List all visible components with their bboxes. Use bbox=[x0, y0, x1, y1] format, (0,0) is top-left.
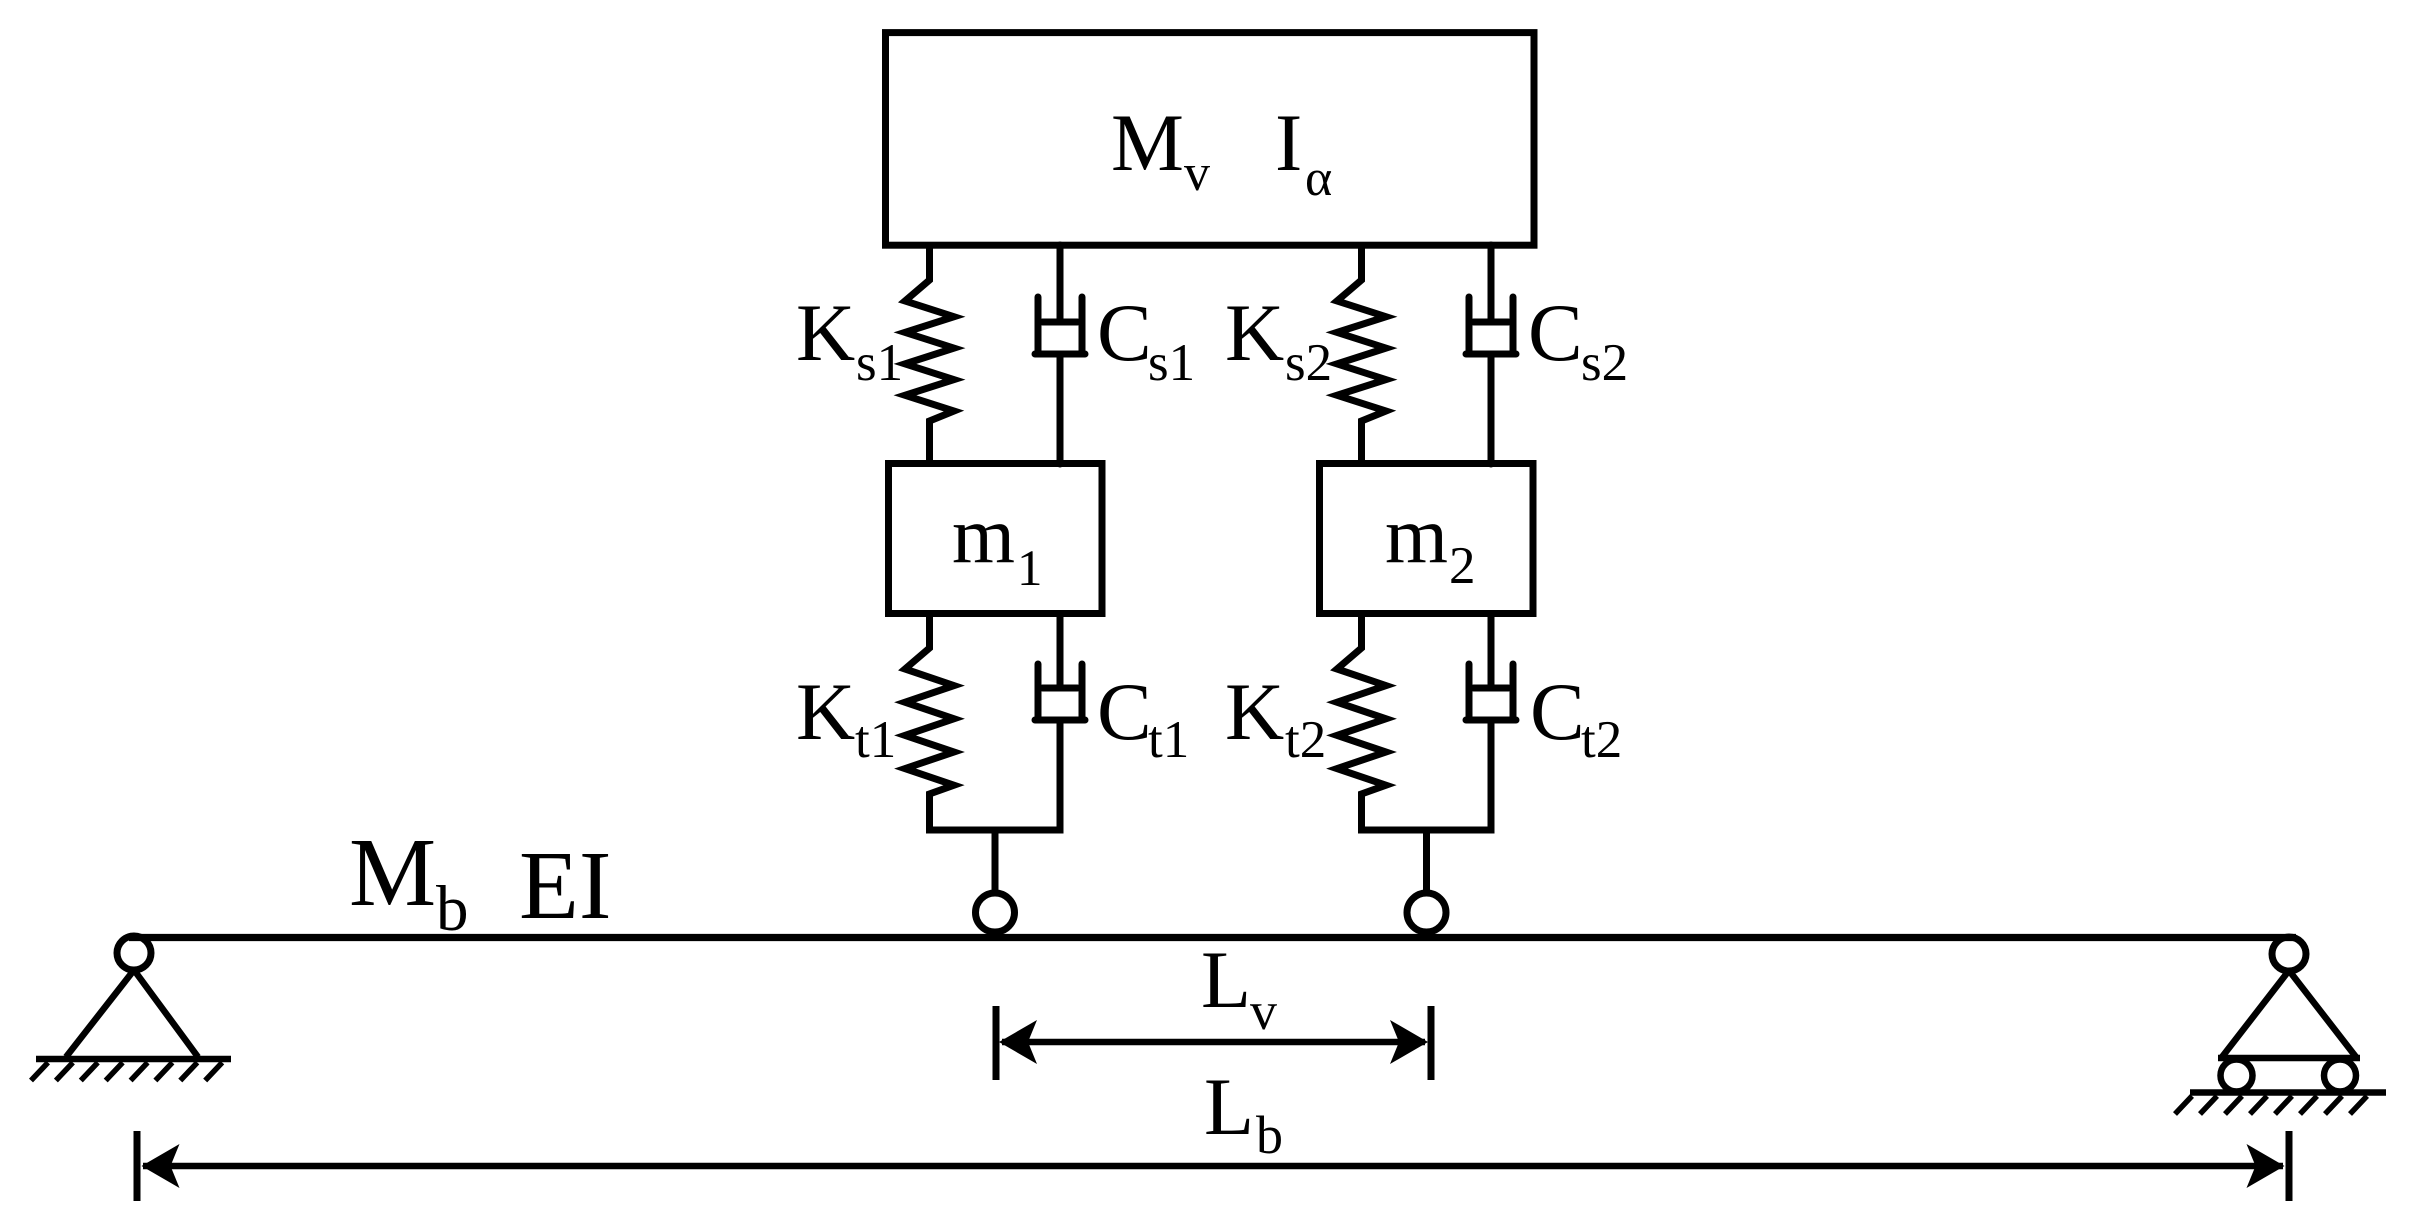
damper Cs2 bbox=[1466, 245, 1516, 464]
right support base line bbox=[2218, 1055, 2360, 1062]
svg-text:b: b bbox=[1256, 1105, 1283, 1165]
svg-text:K: K bbox=[796, 666, 855, 757]
roller circle right bbox=[2324, 1060, 2356, 1092]
svg-text:s1: s1 bbox=[1148, 334, 1195, 392]
wire wheel stem left bbox=[992, 830, 999, 896]
svg-text:b: b bbox=[436, 873, 469, 945]
svg-text:t1: t1 bbox=[855, 711, 896, 769]
svg-text:m: m bbox=[1385, 490, 1448, 580]
svg-text:I: I bbox=[1275, 97, 1302, 188]
spring Ks1 bbox=[905, 245, 954, 464]
svg-text:s2: s2 bbox=[1581, 334, 1628, 392]
svg-text:K: K bbox=[1225, 666, 1284, 757]
svg-text:C: C bbox=[1097, 287, 1152, 378]
spring Ks2 bbox=[1337, 245, 1386, 464]
wire wheel stem right bbox=[1423, 830, 1430, 896]
dimension Lv left arrowhead bbox=[999, 1020, 1037, 1064]
dimension Lb left arrowhead bbox=[142, 1144, 180, 1188]
wire axle bar right bbox=[1358, 827, 1495, 834]
wheel 2 bbox=[1407, 893, 1446, 932]
svg-text:EI: EI bbox=[519, 832, 612, 940]
dimension Lv line bbox=[1002, 1039, 1425, 1046]
svg-text:L: L bbox=[1204, 1061, 1254, 1152]
dimension Lv ticks bbox=[996, 1006, 1431, 1080]
mass m2 bbox=[1320, 464, 1534, 614]
svg-text:t2: t2 bbox=[1581, 711, 1622, 769]
svg-text:t1: t1 bbox=[1148, 711, 1189, 769]
damper Ct2 bbox=[1466, 614, 1516, 831]
roller circle left bbox=[2221, 1060, 2253, 1092]
left support ground line bbox=[36, 1056, 231, 1063]
dimension Lb line bbox=[143, 1163, 2283, 1170]
right support ground line bbox=[2190, 1089, 2386, 1096]
vehicle body Mv bbox=[886, 33, 1535, 246]
left pin support triangle bbox=[66, 970, 198, 1057]
dimension Lb right arrowhead bbox=[2247, 1144, 2285, 1188]
svg-text:s2: s2 bbox=[1285, 334, 1332, 392]
svg-text:t2: t2 bbox=[1285, 711, 1326, 769]
svg-text:v: v bbox=[1184, 145, 1210, 202]
svg-text:C: C bbox=[1528, 287, 1583, 378]
svg-text:L: L bbox=[1201, 934, 1251, 1025]
wheel 1 bbox=[976, 893, 1015, 932]
spring Kt1 bbox=[905, 614, 954, 831]
right roller support triangle bbox=[2222, 971, 2356, 1058]
svg-text:s1: s1 bbox=[856, 334, 903, 392]
beam Mb EI bbox=[129, 934, 2296, 941]
right support hatching bbox=[2175, 1096, 2367, 1114]
svg-text:α: α bbox=[1305, 150, 1332, 207]
svg-text:C: C bbox=[1530, 666, 1585, 757]
left pin support circle bbox=[117, 936, 151, 970]
spring Kt2 bbox=[1337, 614, 1386, 831]
mass m1 bbox=[889, 464, 1103, 614]
svg-text:m: m bbox=[952, 490, 1015, 580]
svg-text:M: M bbox=[1111, 97, 1184, 188]
dimension Lv right arrowhead bbox=[1390, 1020, 1428, 1064]
wire axle bar left bbox=[926, 827, 1064, 834]
svg-text:1: 1 bbox=[1017, 541, 1043, 597]
svg-text:K: K bbox=[1225, 287, 1284, 378]
left support hatching bbox=[31, 1063, 222, 1081]
damper Ct1 bbox=[1035, 614, 1085, 831]
svg-text:M: M bbox=[349, 819, 436, 927]
svg-text:v: v bbox=[1250, 981, 1277, 1041]
svg-text:C: C bbox=[1097, 666, 1152, 757]
svg-text:2: 2 bbox=[1449, 537, 1476, 595]
damper Cs1 bbox=[1035, 245, 1085, 464]
right roller support circle bbox=[2272, 937, 2306, 971]
svg-text:K: K bbox=[796, 287, 855, 378]
dimension Lb ticks bbox=[137, 1131, 2289, 1201]
